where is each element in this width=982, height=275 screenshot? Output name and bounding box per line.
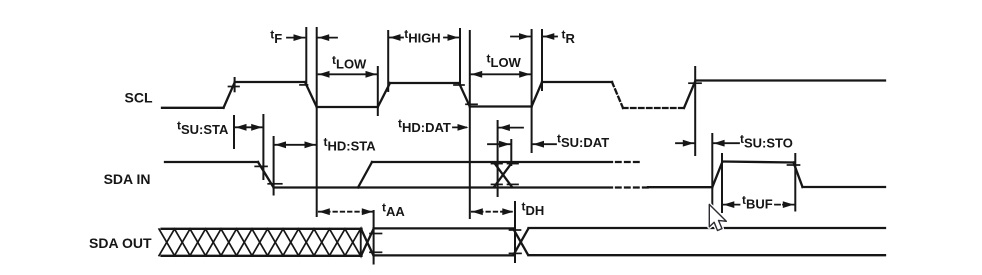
svg-text:SDA OUT: SDA OUT	[89, 235, 152, 251]
svg-text:tBUF: tBUF	[742, 193, 773, 212]
svg-text:tLOW: tLOW	[332, 53, 367, 72]
svg-text:tHIGH: tHIGH	[404, 27, 441, 46]
svg-text:tSU:STA: tSU:STA	[177, 118, 229, 137]
svg-text:tHD:STA: tHD:STA	[324, 135, 377, 154]
svg-text:tLOW: tLOW	[487, 52, 522, 71]
svg-text:tDH: tDH	[522, 200, 545, 219]
svg-text:tSU:STO: tSU:STO	[740, 132, 793, 151]
svg-text:tSU:DAT: tSU:DAT	[557, 132, 609, 151]
svg-text:tAA: tAA	[382, 200, 405, 219]
svg-text:SCL: SCL	[125, 90, 153, 106]
svg-text:SDA IN: SDA IN	[104, 171, 151, 187]
svg-text:tHD:DAT: tHD:DAT	[398, 117, 451, 136]
